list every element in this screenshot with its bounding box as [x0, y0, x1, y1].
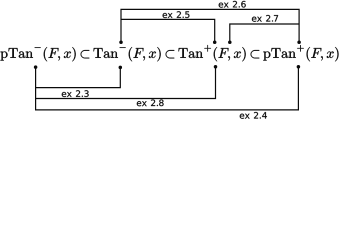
label ex 2.3	[62, 92, 72, 97]
bottom connector dot at x=120.3	[119, 66, 123, 70]
top connector dot at x=214.7	[213, 40, 217, 44]
top connector dot at x=229.8	[228, 40, 232, 44]
main inclusion chain: pTan^-(F,x) subset Tan^-(F,x) subset Tan^+(F,x) subset pTan^+(F,x)	[0, 45, 338, 61]
label ex 2.4	[240, 114, 250, 119]
bracket ex 2.7 outline	[230, 24, 299, 42]
bracket ex 2.5 outline	[121, 19, 215, 41]
top connector dot at x=299.1	[297, 40, 301, 44]
label ex 2.6	[219, 3, 229, 8]
top connector dot at x=121	[119, 40, 123, 44]
bottom connector dot at x=298.4	[297, 65, 301, 69]
bracket ex 2.4 outline	[36, 67, 299, 110]
bracket ex 2.6 outline	[121, 9, 299, 41]
bottom connector dot at x=215.5	[214, 65, 218, 69]
bottom connector dot at x=35.6	[34, 65, 38, 69]
label ex 2.7	[252, 17, 262, 22]
label ex 2.8	[137, 101, 147, 106]
label ex 2.5	[163, 13, 173, 18]
bracket ex 2.8 outline	[36, 67, 216, 99]
bracket ex 2.3 outline	[36, 67, 121, 87]
